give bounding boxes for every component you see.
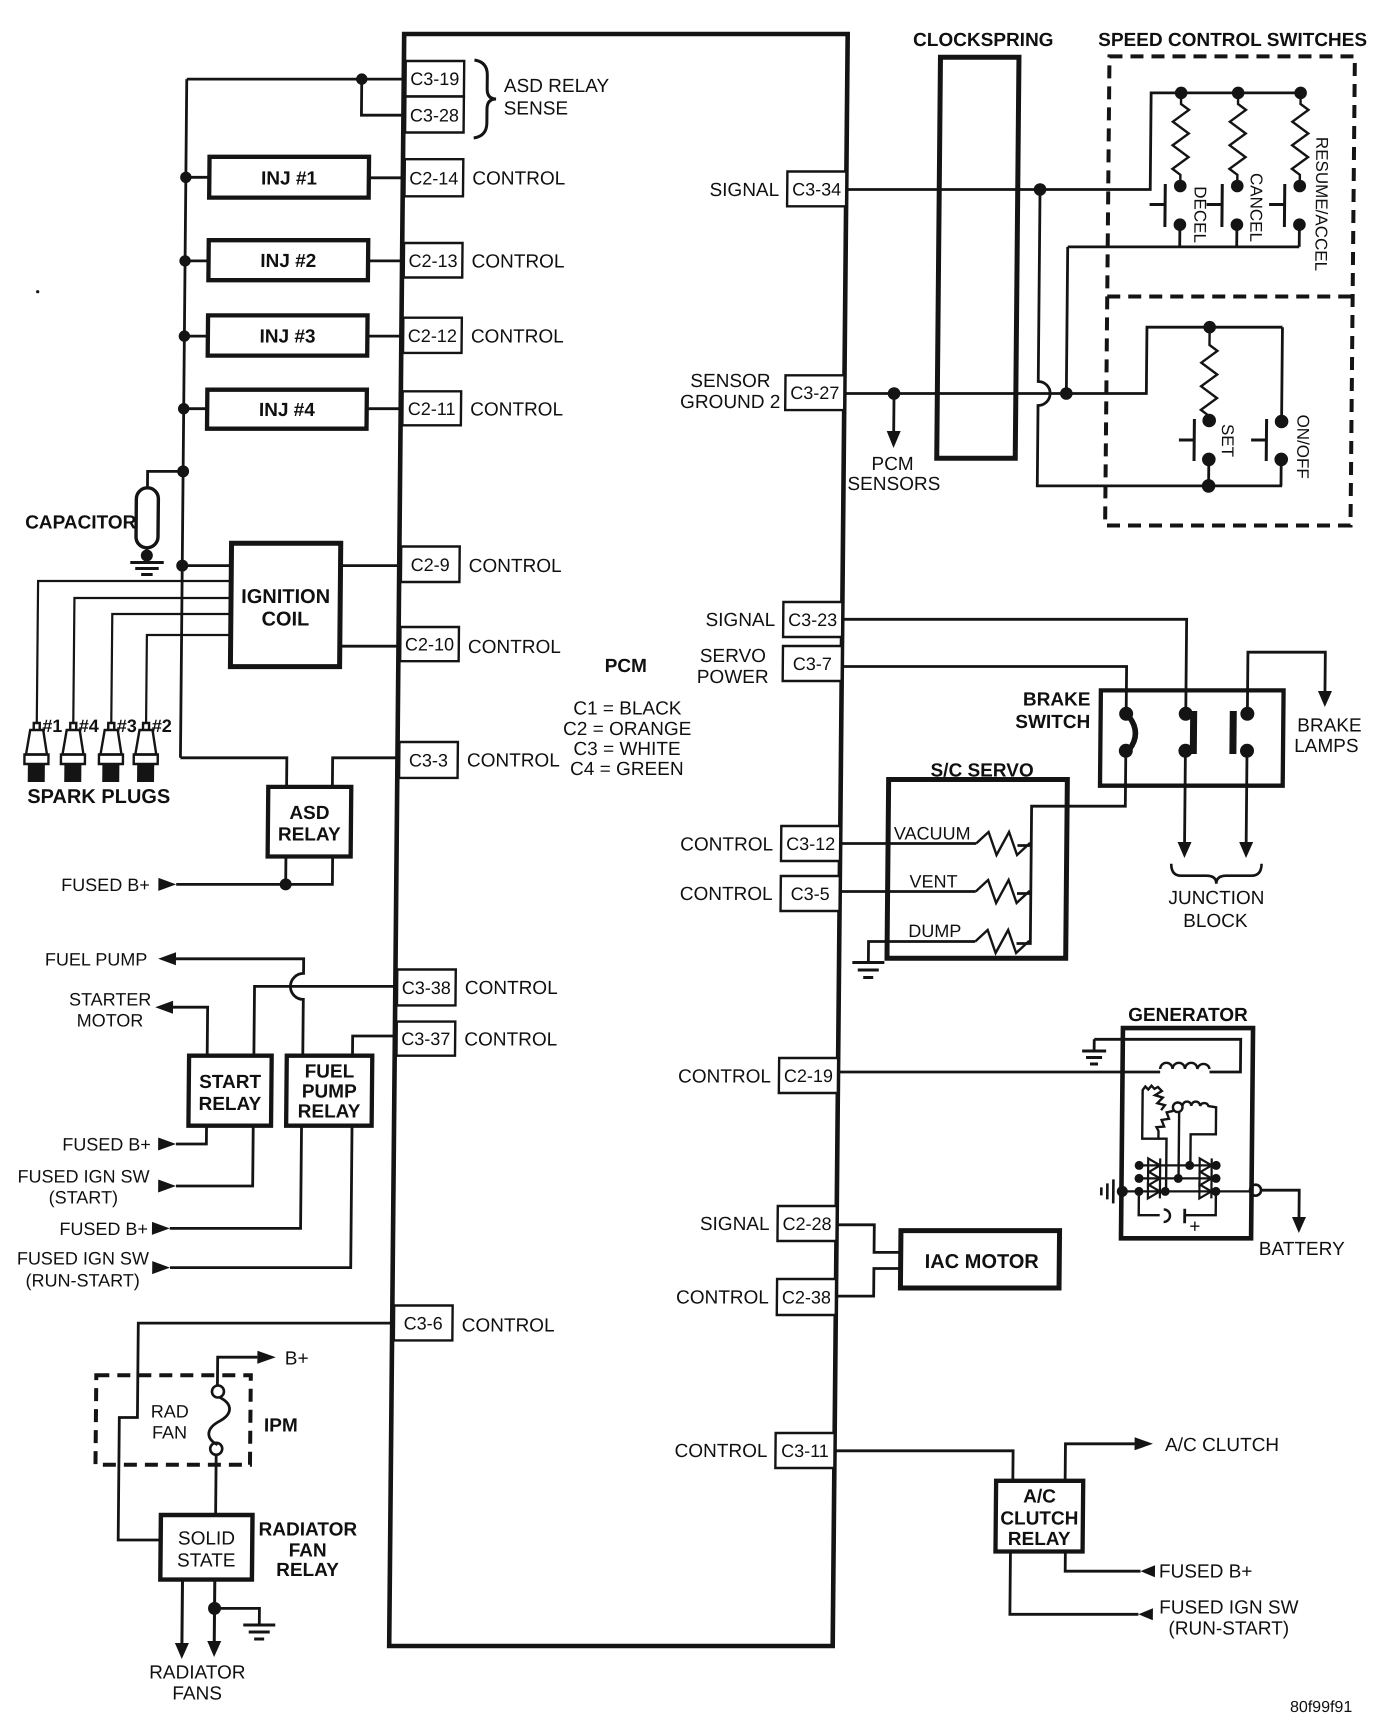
wire bus to INJ #3 xyxy=(184,335,208,338)
wire A/C relay to fused B+ xyxy=(1065,1552,1140,1572)
label IPM xyxy=(264,1416,298,1437)
label VACUUM xyxy=(894,824,971,844)
node top rail DECEL xyxy=(1175,87,1188,100)
wire to ground xyxy=(214,1608,259,1624)
relay ASD xyxy=(268,787,352,857)
svg-text:CONTROL: CONTROL xyxy=(680,834,773,855)
svg-text:FUSED B+: FUSED B+ xyxy=(59,1219,148,1239)
pin label ASD RELAY SENSE xyxy=(504,76,610,120)
pin label CONTROL C3-11 xyxy=(674,1441,767,1462)
svg-text:C3-38: C3-38 xyxy=(402,978,451,998)
wire bus to ignition coil xyxy=(182,564,231,567)
pin label CONTROL C3-38 xyxy=(465,978,558,999)
figure number 80f99f91 xyxy=(1290,1699,1353,1716)
wire capacitor to ground xyxy=(145,548,148,561)
arrow starter motor output xyxy=(155,1001,173,1014)
svg-text:C1 = BLACK: C1 = BLACK xyxy=(573,699,682,720)
svg-text:RADIATOR: RADIATOR xyxy=(149,1662,246,1683)
svg-text:SOLID: SOLID xyxy=(178,1529,235,1550)
generator stator winding A xyxy=(1142,1086,1165,1110)
svg-text:FUSED IGN SW: FUSED IGN SW xyxy=(17,1249,149,1269)
wire C3-7 to brake switch xyxy=(841,667,1126,714)
switch DECEL xyxy=(1149,180,1186,247)
generator rectifier row 2 xyxy=(1134,1171,1220,1185)
label spark plug #2 xyxy=(152,716,172,736)
svg-text:SPARK PLUGS: SPARK PLUGS xyxy=(27,786,170,808)
dashed divider between switch groups xyxy=(1107,295,1352,299)
spark plug 2 xyxy=(134,723,159,782)
pin label CONTROL C2-38 xyxy=(676,1288,769,1309)
relay FUEL PUMP xyxy=(286,1056,372,1126)
ignition coil box xyxy=(230,543,340,666)
svg-text:POWER: POWER xyxy=(697,667,769,688)
svg-text:CONTROL: CONTROL xyxy=(471,252,564,273)
label A/C CLUTCH xyxy=(1165,1435,1279,1456)
arrow radiator fan right xyxy=(207,1641,221,1657)
svg-text:FUEL PUMP: FUEL PUMP xyxy=(45,949,148,969)
svg-text:INJ #2: INJ #2 xyxy=(260,251,316,272)
svg-text:SWITCH: SWITCH xyxy=(1015,712,1090,733)
wire A/C relay to fused ign sw xyxy=(1010,1552,1139,1615)
svg-text:RELAY: RELAY xyxy=(1008,1529,1071,1550)
wire start relay to fused ign sw start xyxy=(176,1126,253,1186)
node junction on sense wire xyxy=(356,73,368,84)
svg-text:GENERATOR: GENERATOR xyxy=(1128,1005,1248,1026)
node capacitor ground dot xyxy=(141,550,153,562)
label FUSED IGN SW (RUN-START) xyxy=(17,1249,149,1291)
svg-text:CONTROL: CONTROL xyxy=(471,327,564,348)
svg-text:#1: #1 xyxy=(42,716,62,736)
arrow junction block left xyxy=(1177,842,1191,858)
pin C2-14 xyxy=(404,159,463,196)
svg-text:FAN: FAN xyxy=(289,1540,327,1561)
pin label CONTROL C2-9 xyxy=(469,556,562,577)
wire bus to ASD relay xyxy=(180,758,287,787)
pin C2-28 xyxy=(777,1206,836,1241)
label RESUME/ACCEL xyxy=(1311,137,1331,271)
brake switch pole 2 xyxy=(1178,707,1193,758)
node SET bottom rail junction xyxy=(1202,479,1216,493)
node ASD fused B+ junction xyxy=(280,878,292,890)
relay START xyxy=(188,1056,271,1126)
node SET rail xyxy=(1203,321,1216,334)
svg-text:C2-12: C2-12 xyxy=(408,326,457,346)
svg-text:A/C: A/C xyxy=(1023,1487,1056,1508)
switch ON/OFF xyxy=(1251,415,1289,486)
node bus ignition coil tee xyxy=(176,560,188,572)
generator output terminal xyxy=(1250,1185,1261,1196)
wire C3-5 to vent solenoid xyxy=(840,890,976,893)
svg-text:C3-28: C3-28 xyxy=(410,105,459,125)
wire B+ feed in IPM xyxy=(217,1357,257,1385)
svg-text:RELAY: RELAY xyxy=(298,1102,361,1123)
svg-text:FAN: FAN xyxy=(152,1423,187,1443)
node generator case ground xyxy=(1117,1186,1128,1197)
label DECEL xyxy=(1190,186,1210,243)
node bus INJ #4 xyxy=(178,403,190,414)
wire C3-12 to vacuum solenoid xyxy=(840,842,976,845)
svg-text:FUSED IGN SW: FUSED IGN SW xyxy=(17,1166,149,1186)
svg-text:SENSE: SENSE xyxy=(504,99,569,120)
relay solid state box xyxy=(160,1515,252,1580)
arrow brake lamps xyxy=(1318,691,1332,707)
svg-text:CONTROL: CONTROL xyxy=(674,1441,767,1462)
svg-text:+: + xyxy=(1189,1216,1200,1237)
wire brake switch to brake lamps xyxy=(1247,652,1325,714)
wire C2-28 to IAC motor xyxy=(836,1225,901,1253)
wire left supply bus xyxy=(180,79,186,758)
dump solenoid winding xyxy=(975,930,1030,953)
wire fuel pump output with hop over C3-38 wire xyxy=(175,959,304,1056)
svg-text:(RUN-START): (RUN-START) xyxy=(1168,1618,1289,1639)
pin label SENSOR GROUND 2 C3-27 xyxy=(680,371,781,413)
svg-text:80f99f91: 80f99f91 xyxy=(1290,1699,1353,1716)
svg-text:C3-5: C3-5 xyxy=(791,884,830,904)
svg-text:FUSED B+: FUSED B+ xyxy=(62,1135,151,1155)
pin C3-5 xyxy=(781,876,840,911)
brake switch pole 3 xyxy=(1233,707,1255,758)
wire C3-6 to radiator fan relay xyxy=(118,1323,394,1540)
label CAPACITOR xyxy=(25,513,137,534)
arrow B+ xyxy=(257,1351,276,1364)
wire coil to spark plug 4 xyxy=(73,598,231,723)
arrow PCM sensors xyxy=(887,431,901,448)
svg-text:CONTROL: CONTROL xyxy=(464,1029,557,1050)
IPM dashed box xyxy=(95,1375,250,1464)
svg-text:RELAY: RELAY xyxy=(199,1094,262,1115)
svg-text:#3: #3 xyxy=(117,716,137,736)
label FUSED B+ (fuel pump relay) xyxy=(59,1219,148,1239)
label FUSED B+ (start relay) xyxy=(62,1135,151,1155)
pin C2-38 xyxy=(777,1279,836,1315)
svg-text:FANS: FANS xyxy=(172,1683,222,1704)
svg-text:FUEL: FUEL xyxy=(305,1062,355,1083)
arrow fused B+ start relay xyxy=(158,1138,176,1151)
ground generator field xyxy=(1082,1051,1106,1064)
svg-text:C3-12: C3-12 xyxy=(786,834,835,854)
svg-text:START: START xyxy=(199,1072,262,1093)
svg-text:CONTROL: CONTROL xyxy=(470,399,563,420)
pin C2-11 xyxy=(402,391,461,425)
svg-text:C2-11: C2-11 xyxy=(408,399,456,419)
pin C3-28 xyxy=(405,97,464,133)
label FUSED B+ (A/C relay) xyxy=(1159,1562,1253,1583)
generator stator junction circle xyxy=(1173,1103,1183,1113)
label PCM SENSORS xyxy=(847,454,940,495)
svg-text:C2-13: C2-13 xyxy=(408,251,457,271)
label BRAKE LAMPS xyxy=(1294,716,1362,758)
wire bus to capacitor xyxy=(147,471,183,487)
node top rail CANCEL xyxy=(1232,87,1245,100)
pin label CONTROL C3-5 xyxy=(680,884,773,905)
pin C3-19 xyxy=(405,61,464,97)
label JUNCTION BLOCK xyxy=(1168,888,1264,932)
generator regulator detail xyxy=(1138,1191,1215,1237)
wire solid state to radiator fan left xyxy=(180,1580,184,1643)
svg-text:SPEED CONTROL SWITCHES: SPEED CONTROL SWITCHES xyxy=(1098,30,1367,51)
wire bus to INJ #4 xyxy=(184,407,208,410)
wire C2-19 to generator field xyxy=(838,1071,1160,1074)
relay A/C clutch xyxy=(995,1481,1083,1552)
label RADIATOR FANS xyxy=(149,1662,246,1704)
svg-text:IPM: IPM xyxy=(264,1416,298,1437)
brace for ASD relay sense xyxy=(474,60,497,138)
brake switch pole 1 xyxy=(1119,707,1136,758)
wire fuel pump relay to fused ign sw run-start xyxy=(170,1126,352,1268)
arrow fused ign sw A/C relay xyxy=(1138,1608,1153,1620)
wire generator to battery xyxy=(1261,1190,1299,1218)
resistor RESUME/ACCEL xyxy=(1292,93,1309,186)
svg-text:(START): (START) xyxy=(49,1187,119,1207)
svg-text:C3-7: C3-7 xyxy=(793,654,832,674)
pin C3-7 xyxy=(783,646,842,681)
wire fuel pump relay to fused B+ xyxy=(170,1126,302,1229)
label FUSED IGN SW (START) xyxy=(17,1166,149,1207)
wire ASD relay to fused B+ xyxy=(176,857,332,885)
svg-text:SENSORS: SENSORS xyxy=(847,474,940,495)
wire upper switches common rail xyxy=(1068,245,1300,248)
spark plug 3 xyxy=(99,723,124,782)
svg-text:CLOCKSPRING: CLOCKSPRING xyxy=(913,30,1054,51)
svg-text:IGNITION: IGNITION xyxy=(241,586,330,608)
wire C3-34 signal to switches xyxy=(846,93,1300,190)
svg-text:CONTROL: CONTROL xyxy=(469,556,562,577)
pin C3-38 xyxy=(397,970,456,1006)
svg-text:CONTROL: CONTROL xyxy=(465,978,558,999)
IAC motor box xyxy=(900,1231,1059,1288)
arrow fused ign sw start xyxy=(158,1180,176,1193)
svg-text:C3-6: C3-6 xyxy=(404,1314,443,1334)
svg-text:C2-19: C2-19 xyxy=(784,1066,833,1086)
pin label CONTROL C2-11 xyxy=(470,399,563,420)
servo common feed vertical xyxy=(1017,842,1032,944)
svg-text:C2-9: C2-9 xyxy=(411,555,450,575)
wire ignition coil to C2-9 xyxy=(341,564,402,567)
svg-text:DECEL: DECEL xyxy=(1190,186,1210,243)
pin C3-37 xyxy=(396,1022,455,1056)
pin label CONTROL C2-14 xyxy=(472,168,565,189)
svg-text:SET: SET xyxy=(1218,424,1237,457)
pin C3-6 xyxy=(394,1306,453,1341)
svg-text:ASD: ASD xyxy=(289,803,329,824)
circuit breaker in IPM xyxy=(209,1386,230,1455)
svg-text:#2: #2 xyxy=(152,716,172,736)
generator stator winding C xyxy=(1142,1090,1180,1192)
wire starter motor output xyxy=(173,1007,208,1055)
brake switch box xyxy=(1100,690,1284,785)
svg-text:PCM: PCM xyxy=(605,656,647,677)
ground capacitor xyxy=(130,563,164,575)
arrow radiator fan left xyxy=(175,1643,189,1659)
label BRAKE SWITCH xyxy=(1015,689,1090,733)
node solid state ground junction xyxy=(208,1602,221,1615)
wire brake switch pole2 to junction block xyxy=(1183,751,1187,843)
vent solenoid winding xyxy=(976,880,1031,903)
svg-text:STATE: STATE xyxy=(177,1551,236,1572)
injector INJ #4 xyxy=(207,390,367,429)
switch RESUME/ACCEL xyxy=(1269,180,1306,247)
injector INJ #2 xyxy=(208,240,368,280)
injector INJ #3 xyxy=(208,315,368,355)
pin label CONTROL C3-37 xyxy=(464,1029,557,1050)
node bus INJ #1 xyxy=(180,172,192,183)
generator rectifier row 1 xyxy=(1135,1158,1221,1172)
svg-text:CANCEL: CANCEL xyxy=(1246,173,1266,242)
resistor DECEL xyxy=(1172,93,1189,186)
svg-text:JUNCTION: JUNCTION xyxy=(1168,888,1264,909)
wire C2-38 to IAC motor xyxy=(836,1269,901,1297)
label DUMP xyxy=(908,921,961,941)
svg-text:CAPACITOR: CAPACITOR xyxy=(25,513,137,534)
svg-text:C4 = GREEN: C4 = GREEN xyxy=(570,759,684,780)
wire generator internal ground loop xyxy=(1094,1039,1241,1072)
capacitor body xyxy=(136,488,159,548)
svg-text:VENT: VENT xyxy=(909,872,957,892)
arrow fused B+ fuel pump relay xyxy=(152,1222,170,1235)
svg-text:C3-27: C3-27 xyxy=(790,383,839,403)
node top rail RESUME xyxy=(1294,87,1307,100)
svg-text:SIGNAL: SIGNAL xyxy=(700,1214,770,1235)
wire C3-23 to brake switch xyxy=(841,619,1186,714)
svg-text:FUSED IGN SW: FUSED IGN SW xyxy=(1159,1597,1299,1618)
arrow A/C clutch output xyxy=(1135,1437,1154,1450)
pin label CONTROL C2-13 xyxy=(471,252,564,273)
clockspring box xyxy=(937,57,1019,458)
vacuum solenoid winding xyxy=(976,832,1031,855)
svg-text:CONTROL: CONTROL xyxy=(467,751,560,772)
svg-text:C2-38: C2-38 xyxy=(782,1288,831,1308)
pin label CONTROL C3-6 xyxy=(462,1316,555,1337)
wire breaker to solid state relay xyxy=(214,1455,217,1515)
svg-text:C3-11: C3-11 xyxy=(781,1441,829,1461)
pin label SIGNAL C3-23 xyxy=(705,610,775,631)
svg-text:ON/OFF: ON/OFF xyxy=(1293,415,1313,479)
svg-text:FUSED B+: FUSED B+ xyxy=(61,875,150,895)
label RADIATOR FAN RELAY xyxy=(258,1520,357,1582)
svg-text:RESUME/ACCEL: RESUME/ACCEL xyxy=(1311,137,1331,271)
pin C3-3 xyxy=(399,742,458,778)
wire C3-38 to start relay xyxy=(254,986,397,1055)
node signal branch xyxy=(1034,183,1047,196)
resistor CANCEL xyxy=(1229,93,1246,186)
pin C2-19 xyxy=(779,1058,838,1093)
svg-text:STARTER: STARTER xyxy=(69,990,152,1010)
svg-text:INJ #1: INJ #1 xyxy=(261,168,318,189)
wire ASD relay sense to C3-19 xyxy=(187,78,406,81)
generator box xyxy=(1121,1028,1253,1238)
svg-text:BRAKE: BRAKE xyxy=(1023,689,1091,710)
svg-text:RELAY: RELAY xyxy=(278,825,341,846)
wire INJ #4 to C2-11 xyxy=(367,407,403,410)
svg-text:CONTROL: CONTROL xyxy=(678,1066,771,1087)
svg-text:INJ #4: INJ #4 xyxy=(259,400,316,421)
pin C2-12 xyxy=(403,318,462,353)
wire A/C clutch output xyxy=(1065,1444,1134,1481)
servo box xyxy=(887,780,1067,959)
pin C2-13 xyxy=(404,243,463,278)
svg-text:RAD: RAD xyxy=(151,1402,189,1422)
node bus capacitor tee xyxy=(177,465,189,477)
svg-text:C3-19: C3-19 xyxy=(410,69,459,89)
svg-text:CONTROL: CONTROL xyxy=(680,884,773,905)
svg-text:SIGNAL: SIGNAL xyxy=(705,610,775,631)
wire coil to spark plug 2 xyxy=(146,635,231,723)
label ON/OFF xyxy=(1293,415,1313,479)
svg-text:LAMPS: LAMPS xyxy=(1294,736,1359,757)
svg-text:PCM: PCM xyxy=(871,454,913,475)
label FUSED B+ (ASD) xyxy=(61,875,150,895)
label CLOCKSPRING xyxy=(913,30,1054,51)
pin label SIGNAL C2-28 xyxy=(700,1214,770,1235)
svg-text:C3-37: C3-37 xyxy=(401,1029,450,1049)
scan speck artifact xyxy=(36,290,39,293)
label SPARK PLUGS xyxy=(27,786,170,808)
switch CANCEL xyxy=(1206,180,1243,247)
wire bus to INJ #2 xyxy=(185,259,209,262)
svg-text:CONTROL: CONTROL xyxy=(462,1316,555,1337)
svg-text:#4: #4 xyxy=(79,716,99,736)
svg-text:INJ #3: INJ #3 xyxy=(259,326,315,347)
svg-text:BATTERY: BATTERY xyxy=(1259,1239,1345,1260)
pin C3-34 xyxy=(787,172,846,207)
label BATTERY xyxy=(1259,1239,1345,1260)
wire PCM sensors arrow stem xyxy=(892,394,895,433)
svg-text:GROUND 2: GROUND 2 xyxy=(680,392,780,413)
arrow fused B+ A/C relay xyxy=(1140,1565,1155,1577)
spark plug 4 xyxy=(61,723,86,782)
pin label CONTROL C3-12 xyxy=(680,834,773,855)
wire coil to spark plug 1 xyxy=(37,581,231,723)
wire ON/OFF branch from rail xyxy=(1280,327,1284,421)
node bus INJ #3 xyxy=(179,330,191,341)
pin label SERVO POWER C3-7 xyxy=(697,646,769,688)
label S/C SERVO xyxy=(930,761,1033,782)
label FUSED IGN SW (RUN-START) A/C xyxy=(1159,1597,1299,1639)
pin C3-27 xyxy=(785,375,844,410)
generator field coil xyxy=(1160,1063,1209,1069)
label SPEED CONTROL SWITCHES xyxy=(1098,30,1367,51)
wire bus to INJ #1 xyxy=(186,176,210,179)
svg-text:C3-34: C3-34 xyxy=(792,179,841,199)
label spark plug #3 xyxy=(117,716,137,736)
injector INJ #1 xyxy=(209,157,369,198)
arrow fused ign sw run-start xyxy=(152,1261,170,1274)
svg-text:C3 = WHITE: C3 = WHITE xyxy=(573,739,680,760)
label FUEL PUMP xyxy=(45,949,148,969)
pin label SIGNAL C3-34 xyxy=(709,180,779,201)
label RAD FAN xyxy=(150,1402,188,1443)
node PCM sensors branch xyxy=(888,387,901,400)
svg-text:DUMP: DUMP xyxy=(908,921,961,941)
svg-text:C2-10: C2-10 xyxy=(405,635,454,655)
svg-text:CONTROL: CONTROL xyxy=(468,637,561,658)
PCM legend xyxy=(563,656,692,780)
label STARTER MOTOR xyxy=(69,990,152,1031)
pin C3-12 xyxy=(781,826,840,861)
pin label CONTROL C2-10 xyxy=(468,637,561,658)
pin C3-23 xyxy=(783,602,842,637)
pin C2-10 xyxy=(400,627,459,661)
svg-text:A/C CLUTCH: A/C CLUTCH xyxy=(1165,1435,1279,1456)
label CANCEL xyxy=(1246,173,1266,242)
wire INJ #1 to C2-14 xyxy=(369,176,405,179)
wire ignition coil to C2-10 xyxy=(340,645,401,648)
wire C3-37 to fuel pump relay xyxy=(352,1036,396,1056)
label VENT xyxy=(909,872,957,892)
svg-text:RELAY: RELAY xyxy=(276,1560,339,1581)
svg-text:SERVO: SERVO xyxy=(700,646,766,667)
svg-text:SIGNAL: SIGNAL xyxy=(709,180,779,201)
